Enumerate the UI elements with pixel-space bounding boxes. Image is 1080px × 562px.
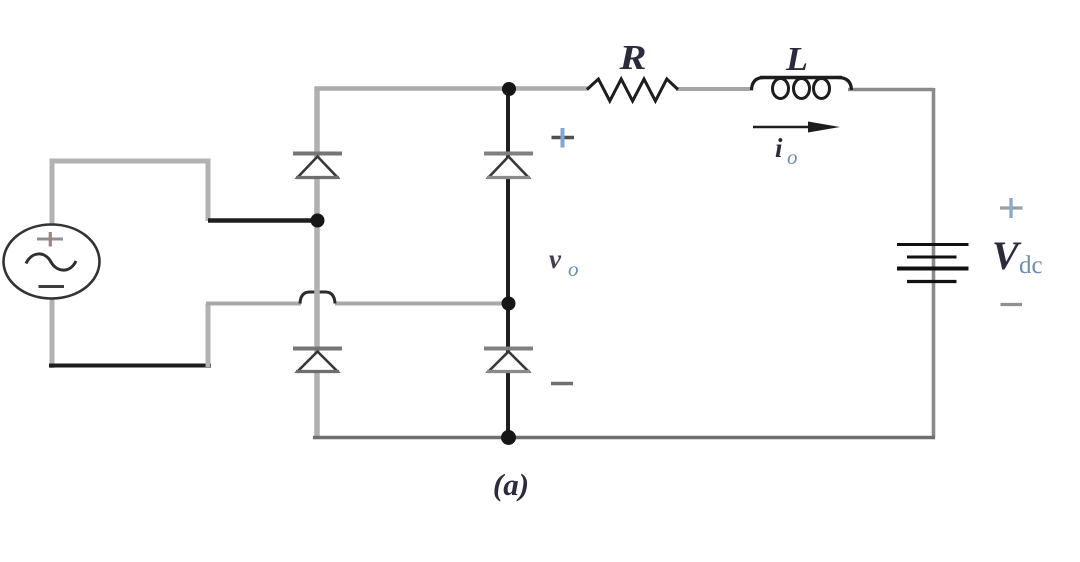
wire: source bottom horizontal (black) [49,364,211,368]
node: bottom of right leg [501,430,516,445]
wire: lower tap horizontal y=303.5 to right bridge leg [206,302,301,306]
diode D4 (right leg, lower) [484,349,533,372]
svg-text:R: R [618,38,646,77]
node: junction of source tap and left leg [311,214,325,228]
svg-text:V: V [992,233,1022,278]
node: top of right leg [502,82,516,96]
svg-text:L: L [785,41,808,78]
node: middle of right leg [502,297,516,311]
diode D3 (right leg, upper) [484,154,533,178]
ac source sine wave [26,254,76,270]
label minus (output voltage) [551,382,573,385]
svg-text:o: o [568,257,579,281]
arrow: output current direction [753,122,840,133]
ac source plus mark [37,238,63,241]
diode D2 (left leg, lower) [293,349,342,372]
wire: source lower left vertical [50,297,55,368]
svg-text:i: i [775,133,783,163]
wire: right bridge leg (black) [506,89,510,437]
label minus (battery) [1001,303,1023,306]
resistor R [587,79,678,101]
wire: upper tap horizontal y=220.5 (black) to left leg node [208,218,317,223]
wire: top rail from inductor to right corner [848,88,934,92]
wire: crossover hop over left leg [300,292,335,304]
wire: lower tap vertical x=208 [206,304,211,368]
label plus (output voltage) [552,136,575,140]
wire: top rail between resistor and inductor [676,87,753,91]
svg-text:o: o [787,145,798,169]
diode D1 (left leg, upper) [293,154,342,178]
wire: source loop upper (left vertical, top horizontal, right vertical down to tap) [52,161,208,226]
ac source minus mark [39,285,65,288]
wire: left bridge leg [314,87,320,437]
wire: bottom rail [313,436,935,439]
wire: right vertical to battery and down [932,88,936,438]
inductor L [752,78,852,99]
svg-text:dc: dc [1019,252,1043,279]
svg-text:(a): (a) [493,467,529,502]
battery Vdc [897,245,969,282]
ac source VS [4,225,100,299]
label plus (battery) [1000,206,1023,209]
wire: top rail from left leg to resistor [315,86,589,91]
svg-text:v: v [549,244,562,274]
